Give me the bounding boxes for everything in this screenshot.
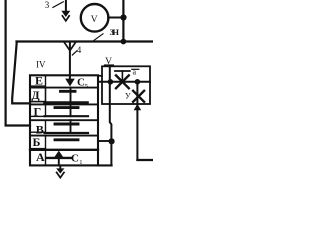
svg-text:4: 4 (77, 45, 82, 55)
membrane stem row Д (70, 88, 72, 103)
membrane stem row Г (70, 104, 72, 116)
wire right drop line (136, 82, 138, 160)
inlet arrow into chamber Е (65, 79, 75, 87)
partition line B/A (30, 149, 98, 151)
valve а (116, 75, 129, 88)
svg-text:5: 5 (85, 83, 88, 90)
svg-text:У: У (125, 92, 131, 101)
partition line G/V (30, 119, 98, 121)
wire voltmeter to junction (108, 17, 123, 19)
wire stub to drop line (98, 140, 112, 142)
valve У (133, 91, 144, 102)
svg-text:Е: Е (35, 73, 43, 87)
svg-text:3: 3 (45, 0, 50, 10)
wire drop line left (110, 66, 112, 165)
wire leader for ЗН (94, 34, 103, 41)
node junction on bus (121, 39, 127, 45)
wire leader for 4 (72, 51, 77, 55)
voltmeter V (81, 4, 109, 32)
svg-text:ЗН: ЗН (110, 27, 120, 37)
membrane short plate E/D (61, 90, 76, 93)
wire bottom right out (137, 159, 153, 161)
wire left inner feed (12, 42, 30, 104)
wire vertical from top (122, 0, 124, 42)
partition line D/G (30, 103, 98, 105)
node pipe left junction (108, 79, 114, 85)
svg-text:Г: Г (33, 105, 41, 119)
wire leader for 3 (53, 2, 63, 8)
pipe through valves (98, 81, 150, 83)
wire left outer feed (6, 0, 30, 126)
wire link IV to V (98, 75, 102, 77)
svg-text:С: С (71, 153, 79, 165)
node pipe right junction (135, 79, 141, 85)
wire top bus (17, 40, 154, 42)
chamber label box Г (30, 104, 46, 116)
svg-text:А: А (36, 150, 45, 164)
node junction at voltmeter wire (120, 14, 126, 20)
node junction on drop line (109, 138, 115, 144)
outlet arrow chamber А (54, 151, 63, 158)
chamber label box Б (30, 136, 46, 149)
bottom vent outlet (59, 165, 61, 169)
svg-text:Д: Д (31, 88, 40, 102)
apparatus box IV (30, 75, 98, 165)
partition line V/B (30, 135, 98, 137)
partition line E/D (30, 87, 98, 89)
svg-text:С: С (77, 77, 85, 89)
wire elbow box bottom extension (98, 164, 112, 166)
svg-text:V: V (91, 15, 98, 25)
chamber label box А (30, 150, 46, 166)
flow arrow under У (134, 104, 142, 110)
valve box V (102, 66, 150, 104)
svg-text:Б: Б (33, 135, 41, 149)
chamber label box В (30, 120, 46, 132)
svg-text:1: 1 (79, 159, 82, 166)
vent outlet 3 (65, 0, 67, 12)
chamber label box Д (30, 88, 46, 102)
chamber label box Е (30, 75, 46, 86)
membrane stem row В (70, 120, 72, 133)
svg-text:IV: IV (36, 60, 46, 70)
inlet funnel 4 (64, 43, 75, 51)
